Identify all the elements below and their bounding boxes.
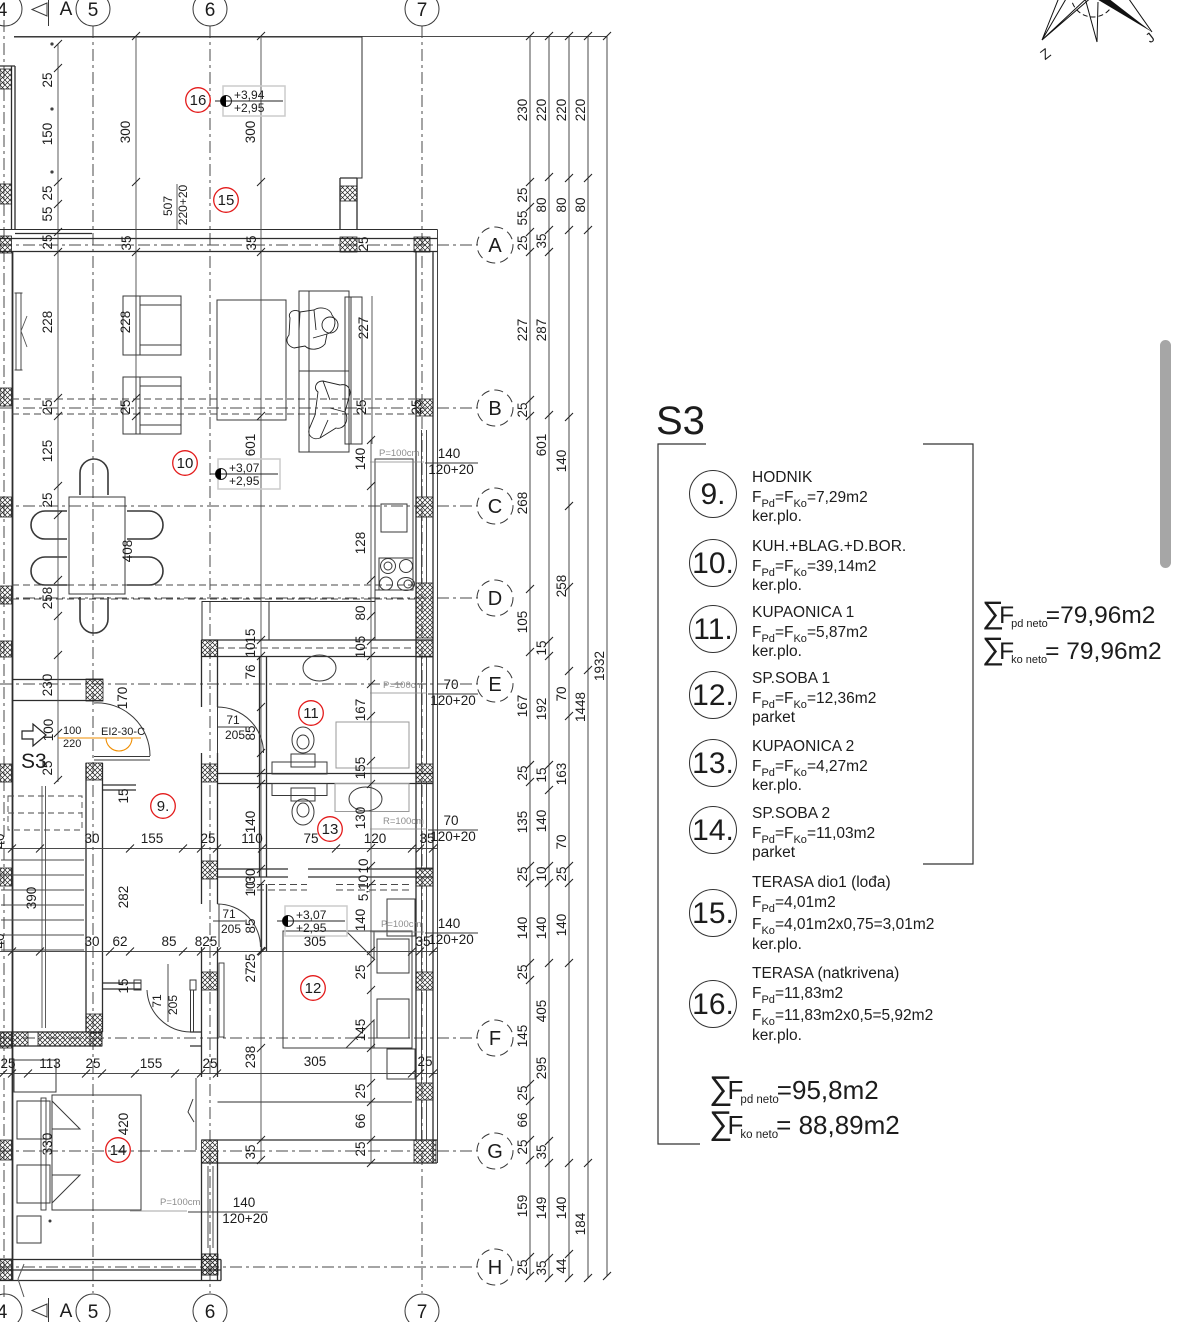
- interior rotated dim labels: [0, 72, 424, 1159]
- hatch block: [202, 640, 218, 657]
- bed room 14: [14, 1060, 141, 1243]
- hatch block: [340, 237, 357, 252]
- svg-text:1448: 1448: [573, 692, 588, 722]
- svg-text:125: 125: [40, 440, 55, 463]
- svg-text:5,10: 5,10: [356, 875, 371, 901]
- svg-text:6: 6: [205, 1302, 216, 1322]
- svg-text:13: 13: [322, 821, 339, 838]
- svg-text:25: 25: [353, 964, 368, 979]
- svg-text:140: 140: [534, 917, 549, 940]
- bubble 5 bottom: [76, 1294, 110, 1322]
- svg-text:71: 71: [150, 994, 164, 1008]
- hatch block: [416, 497, 433, 517]
- svg-text:130: 130: [353, 807, 368, 830]
- grid line E horizontal: [0, 683, 478, 685]
- svg-text:408: 408: [120, 540, 135, 563]
- hatch block: [416, 764, 433, 782]
- svg-text:S3: S3: [21, 750, 47, 773]
- svg-text:11.: 11.: [693, 613, 732, 646]
- window glazing right wall: [15, 293, 427, 1248]
- dim line x136: [135, 36, 137, 416]
- svg-text:15: 15: [116, 978, 131, 993]
- svg-text:B: B: [488, 398, 501, 420]
- hatched wall blocks: [0, 69, 436, 1280]
- svg-text:25: 25: [515, 187, 530, 202]
- svg-text:15: 15: [534, 640, 549, 655]
- bubble 6 bottom: [193, 1294, 227, 1322]
- svg-text:∑Fpd neto=95,8m2: ∑Fpd neto=95,8m2: [709, 1069, 879, 1106]
- svg-text:parket: parket: [752, 844, 796, 861]
- svg-text:P=100cm: P=100cm: [383, 680, 423, 691]
- svg-text:105: 105: [353, 636, 368, 659]
- door room11: [218, 707, 264, 753]
- corridor wall x201-217 segments: [202, 640, 218, 707]
- svg-text:1932: 1932: [592, 651, 607, 681]
- hatch block: [202, 1140, 218, 1163]
- svg-text:80: 80: [573, 197, 588, 212]
- svg-text:R=100cm: R=100cm: [383, 816, 424, 827]
- svg-text:295: 295: [534, 1057, 549, 1080]
- 507 label line: [176, 184, 178, 229]
- chain line 1: [529, 36, 531, 1276]
- svg-text:507: 507: [161, 196, 175, 216]
- glazing terrace window below G: [208, 1166, 213, 1248]
- svg-text:A: A: [60, 1301, 73, 1322]
- svg-text:163: 163: [554, 763, 569, 786]
- svg-text:128: 128: [353, 532, 368, 555]
- svg-text:25: 25: [118, 399, 133, 414]
- svg-text:227: 227: [515, 319, 530, 342]
- svg-text:220: 220: [573, 99, 588, 122]
- svg-text:238: 238: [243, 1046, 258, 1069]
- legend entry 13.: [690, 740, 737, 787]
- svg-text:220+20: 220+20: [176, 184, 190, 225]
- svg-text:140: 140: [554, 450, 569, 473]
- right outer sill line: [437, 230, 439, 1164]
- svg-text:9.: 9.: [700, 478, 725, 511]
- svg-text:H: H: [488, 1257, 502, 1279]
- left wall below A: [12, 252, 14, 1281]
- svg-text:ker.plo.: ker.plo.: [752, 643, 802, 660]
- svg-text:184: 184: [573, 1212, 588, 1235]
- svg-text:27: 27: [243, 967, 258, 982]
- svg-text:35: 35: [534, 233, 549, 248]
- svg-text:70: 70: [554, 834, 569, 849]
- svg-text:A: A: [60, 0, 73, 20]
- svg-text:25: 25: [354, 399, 369, 414]
- svg-text:205: 205: [221, 922, 241, 936]
- svg-text:∑Fko neto= 88,89m2: ∑Fko neto= 88,89m2: [709, 1104, 900, 1141]
- room12 bottom wall G: [202, 1140, 438, 1163]
- hatch block: [0, 236, 12, 253]
- svg-text:FPd=FKo=11,03m2: FPd=FKo=11,03m2: [752, 825, 875, 846]
- svg-text:FKo=4,01m2x0,75=3,01m2: FKo=4,01m2x0,75=3,01m2: [752, 916, 934, 937]
- door labels 71/205: [150, 713, 249, 1022]
- svg-text:25: 25: [85, 1056, 100, 1071]
- svg-text:4: 4: [0, 1302, 8, 1322]
- svg-text:100: 100: [63, 725, 81, 737]
- chain ticks: [526, 32, 611, 1282]
- svg-text:25: 25: [0, 1056, 15, 1071]
- hatch block: [416, 1083, 433, 1100]
- chain line 4: [587, 36, 589, 1278]
- S3 section arrow: [22, 724, 46, 746]
- svg-text:EI2-30-C: EI2-30-C: [101, 726, 145, 738]
- svg-text:230: 230: [515, 99, 530, 122]
- svg-text:227: 227: [356, 317, 371, 340]
- svg-text:258: 258: [554, 575, 569, 598]
- svg-text:140: 140: [353, 448, 368, 471]
- svg-text:FPd=FKo=4,27m2: FPd=FKo=4,27m2: [752, 758, 868, 779]
- svg-text:601: 601: [243, 434, 258, 457]
- svg-text:ker.plo.: ker.plo.: [752, 1027, 802, 1044]
- legend entry 10.: [690, 540, 737, 587]
- grid line C horizontal: [0, 505, 478, 507]
- svg-text:35: 35: [534, 1144, 549, 1159]
- svg-text:85: 85: [243, 725, 258, 740]
- svg-text:105: 105: [515, 611, 530, 634]
- svg-text:40: 40: [0, 933, 7, 948]
- svg-text:25: 25: [40, 492, 55, 507]
- hatch block: [86, 763, 103, 780]
- svg-text:4: 4: [0, 0, 8, 21]
- hatch block: [202, 972, 218, 990]
- svg-text:44: 44: [554, 1258, 569, 1274]
- kitchen counter: [375, 459, 415, 640]
- svg-text:80: 80: [353, 605, 368, 620]
- legend entry 9.: [690, 471, 737, 518]
- bubble 7 bottom: [405, 1294, 439, 1322]
- room14 top wall: [0, 1032, 202, 1046]
- svg-text:25: 25: [515, 235, 530, 250]
- svg-text:30: 30: [84, 934, 99, 949]
- hall 9 left wall: [86, 763, 103, 1032]
- svg-text:5: 5: [88, 0, 99, 21]
- armchair 1: [123, 296, 181, 355]
- svg-text:10: 10: [243, 881, 258, 896]
- svg-text:15: 15: [243, 628, 258, 643]
- wardrobe slab room14: [41, 1098, 46, 1210]
- dots on dim line: [57, 44, 59, 782]
- svg-text:25: 25: [243, 953, 258, 968]
- svg-text:14: 14: [110, 1142, 127, 1159]
- svg-text:167: 167: [515, 695, 530, 718]
- grid line 6 vertical: [209, 26, 211, 1293]
- svg-text:230: 230: [40, 674, 55, 697]
- svg-text:192: 192: [534, 698, 549, 721]
- svg-text:16: 16: [190, 92, 207, 109]
- grid line B horizontal: [0, 407, 478, 409]
- svg-text:13.: 13.: [692, 747, 734, 780]
- svg-text:405: 405: [534, 1000, 549, 1023]
- burners: [381, 559, 396, 574]
- bubble 4 top: [0, 0, 22, 26]
- hatch block: [0, 388, 12, 406]
- entry door to hall: [94, 703, 150, 760]
- wardrobe slab room12 left: [219, 963, 224, 1037]
- hatch block: [202, 1254, 218, 1275]
- coffee table: [217, 300, 286, 420]
- grid line 5 vertical: [92, 26, 94, 1293]
- svg-text:15: 15: [116, 788, 131, 803]
- svg-text:71: 71: [226, 713, 240, 727]
- svg-text:25: 25: [515, 765, 530, 780]
- svg-text:825: 825: [195, 934, 218, 949]
- svg-text:FPd=FKo=12,36m2: FPd=FKo=12,36m2: [752, 690, 876, 711]
- DIMENSION CHAINS right: [14, 36, 607, 1278]
- hatch block: [0, 69, 12, 89]
- bubble 4 bottom: [0, 1294, 22, 1322]
- svg-text:35: 35: [534, 1260, 549, 1275]
- svg-text:601: 601: [534, 434, 549, 457]
- legend entry 11.: [690, 606, 737, 653]
- grid line H horizontal: [0, 1266, 478, 1268]
- right exterior wall faces: [416, 252, 433, 1163]
- dining table: [69, 497, 125, 594]
- chain line 2: [548, 36, 550, 1278]
- couch: [299, 291, 349, 452]
- svg-text:35: 35: [244, 235, 259, 250]
- svg-text:75: 75: [303, 831, 318, 846]
- bubble 5 top: [76, 0, 110, 26]
- legend right bracket: [923, 444, 973, 864]
- svg-text:140: 140: [515, 917, 530, 940]
- svg-text:TERASA (natkrivena): TERASA (natkrivena): [752, 965, 899, 982]
- svg-text:170: 170: [115, 687, 130, 710]
- svg-text:P=100cm: P=100cm: [160, 1197, 200, 1208]
- dim line x261: [260, 36, 262, 1160]
- svg-text:140: 140: [243, 811, 258, 834]
- hatch block: [86, 679, 103, 701]
- svg-text:66: 66: [353, 1113, 368, 1128]
- svg-text:7: 7: [417, 0, 428, 21]
- svg-text:25: 25: [515, 964, 530, 979]
- svg-text:A: A: [488, 235, 502, 257]
- svg-text:25: 25: [409, 399, 424, 414]
- svg-text:228: 228: [40, 311, 55, 334]
- wall stub col top: [340, 178, 357, 230]
- svg-text:35: 35: [119, 235, 134, 250]
- svg-text:85: 85: [161, 934, 176, 949]
- hatch block: [0, 641, 12, 657]
- hatch block: [202, 861, 218, 879]
- H bottom wall: [0, 1260, 221, 1281]
- svg-text:6: 6: [205, 0, 216, 21]
- hatch block: [38, 1032, 102, 1046]
- break mark bottom-left: [18, 1264, 24, 1297]
- svg-text:140: 140: [353, 909, 368, 932]
- svg-text:120+20: 120+20: [430, 693, 475, 708]
- top connector line: [14, 36, 607, 38]
- svg-text:ker.plo.: ker.plo.: [752, 777, 802, 794]
- svg-text:71: 71: [222, 907, 236, 921]
- svg-text:5: 5: [88, 1302, 99, 1322]
- svg-text:300: 300: [243, 121, 258, 144]
- hatch block: [414, 1140, 436, 1163]
- door14 terrace leaf: [188, 1078, 196, 1150]
- svg-text:35: 35: [243, 1144, 258, 1159]
- svg-text:25: 25: [353, 1141, 368, 1156]
- svg-text:305: 305: [304, 1054, 327, 1069]
- legend entry 16.: [690, 981, 737, 1028]
- svg-text:25: 25: [515, 1139, 530, 1154]
- svg-text:25: 25: [356, 236, 371, 251]
- svg-text:120: 120: [364, 831, 387, 846]
- hatch block: [340, 186, 357, 201]
- svg-text:FPd=11,83m2: FPd=11,83m2: [752, 985, 843, 1006]
- bath top wall: [202, 640, 434, 657]
- dim row y1073: [0, 1073, 437, 1075]
- dining chairs: [31, 459, 163, 633]
- svg-text:14.: 14.: [692, 814, 734, 847]
- bubble 7 top: [405, 0, 439, 26]
- svg-text:15.: 15.: [692, 897, 734, 930]
- dashed landing box: [8, 796, 82, 830]
- chain line 3: [568, 36, 570, 1278]
- svg-text:120+20: 120+20: [222, 1211, 267, 1226]
- svg-text:11: 11: [303, 705, 319, 722]
- svg-text:KUPAONICA 2: KUPAONICA 2: [752, 738, 854, 755]
- svg-text:300: 300: [118, 121, 133, 144]
- dashed beams B and D: [12, 399, 416, 890]
- dim row y951: [0, 951, 437, 953]
- break mark left window: [21, 316, 27, 347]
- svg-text:159: 159: [515, 1195, 530, 1218]
- svg-text:140: 140: [233, 1195, 256, 1210]
- hatch block: [0, 868, 12, 886]
- svg-text:parket: parket: [752, 709, 796, 726]
- svg-text:+3,94: +3,94: [234, 88, 265, 102]
- svg-text:228: 228: [118, 311, 133, 334]
- svg-text:66: 66: [515, 1112, 530, 1127]
- leader lines for window labels: [130, 462, 427, 1211]
- svg-text:E: E: [488, 674, 501, 696]
- dim row y848: [0, 848, 437, 850]
- svg-text:205: 205: [225, 728, 245, 742]
- svg-text:258: 258: [40, 587, 55, 610]
- svg-text:25: 25: [515, 1085, 530, 1100]
- svg-text:135: 135: [515, 811, 530, 834]
- terrace outline top: [14, 37, 362, 178]
- hatch block: [0, 586, 12, 604]
- svg-text:FPd=FKo=39,14m2: FPd=FKo=39,14m2: [752, 558, 876, 579]
- bath 11 fixtures: [272, 655, 409, 774]
- legend entry 14.: [690, 807, 737, 854]
- bubble 6 top: [193, 0, 227, 26]
- svg-text:167: 167: [353, 699, 368, 722]
- svg-text:12.: 12.: [692, 679, 734, 712]
- svg-text:P=100cm: P=100cm: [379, 448, 419, 459]
- svg-text:70: 70: [443, 813, 458, 828]
- svg-text:25: 25: [40, 72, 55, 87]
- svg-text:F: F: [489, 1028, 501, 1050]
- svg-text:140: 140: [554, 1197, 569, 1220]
- window spec labels: [160, 446, 478, 1226]
- hatch block: [0, 184, 12, 204]
- svg-text:205: 205: [166, 995, 180, 1015]
- hatch block: [416, 640, 433, 657]
- svg-text:145: 145: [353, 1019, 368, 1042]
- svg-text:120+20: 120+20: [428, 932, 473, 947]
- svg-text:+3,07: +3,07: [229, 461, 260, 475]
- svg-text:55: 55: [40, 206, 55, 221]
- svg-text:∑Fpd neto=79,96m2: ∑Fpd neto=79,96m2: [982, 595, 1155, 630]
- section mark bottom: [32, 1298, 49, 1322]
- svg-text:+2,95: +2,95: [234, 101, 265, 115]
- svg-text:76: 76: [243, 664, 258, 679]
- svg-text:10: 10: [177, 455, 194, 472]
- bath divider wall 11/13: [218, 774, 434, 784]
- hatch block: [0, 1032, 12, 1048]
- svg-text:287: 287: [534, 319, 549, 342]
- svg-text:25: 25: [40, 185, 55, 200]
- GRID BUBBLES: [0, 0, 439, 1322]
- svg-text:25: 25: [515, 1259, 530, 1274]
- chain labels column 1: [515, 99, 607, 1276]
- svg-text:25: 25: [515, 866, 530, 881]
- grid line A horizontal: [0, 244, 478, 246]
- hatch block: [0, 497, 12, 517]
- hatch block: [416, 868, 433, 886]
- hatch block: [90, 1033, 102, 1046]
- svg-text:25: 25: [554, 866, 569, 881]
- svg-text:SP.SOBA 1: SP.SOBA 1: [752, 670, 830, 687]
- svg-text:ker.plo.: ker.plo.: [752, 577, 802, 594]
- dim line x371: [370, 440, 372, 1163]
- svg-text:J: J: [1142, 29, 1157, 46]
- svg-text:40: 40: [0, 833, 7, 848]
- svg-text:420: 420: [116, 1113, 131, 1136]
- svg-text:C: C: [488, 496, 502, 518]
- svg-text:220: 220: [63, 738, 81, 750]
- svg-text:HODNIK: HODNIK: [752, 469, 813, 486]
- door room12: [218, 904, 261, 947]
- svg-text:140: 140: [438, 916, 461, 931]
- bath 13 fixtures: [272, 784, 409, 826]
- svg-text:150: 150: [40, 123, 55, 146]
- svg-text:25: 25: [417, 1054, 432, 1069]
- kitchen island: [202, 602, 269, 641]
- svg-text:P=100cm: P=100cm: [381, 919, 421, 930]
- svg-text:120+20: 120+20: [430, 829, 475, 844]
- grid line F horizontal: [0, 1037, 478, 1039]
- svg-text:220: 220: [534, 99, 549, 122]
- section mark top: [32, 0, 49, 26]
- stair rail: [42, 786, 46, 1028]
- svg-text:25: 25: [353, 1083, 368, 1098]
- svg-text:∑Fko neto= 79,96m2: ∑Fko neto= 79,96m2: [982, 631, 1162, 666]
- svg-text:140: 140: [438, 446, 461, 461]
- armchair 2: [123, 377, 181, 434]
- svg-text:10: 10: [356, 858, 371, 873]
- svg-text:FPd=4,01m2: FPd=4,01m2: [752, 894, 836, 915]
- svg-text:55: 55: [515, 210, 530, 225]
- svg-text:85: 85: [243, 918, 258, 933]
- svg-text:282: 282: [116, 886, 131, 909]
- doors: [18, 703, 264, 1297]
- grid line 7 vertical: [421, 26, 423, 1293]
- svg-text:15: 15: [218, 192, 235, 209]
- hatch block: [202, 1254, 218, 1275]
- glazing left wall window: [16, 293, 21, 370]
- letter bubbles right side (dashed circles): [477, 227, 513, 1285]
- svg-text:Z: Z: [1037, 45, 1054, 63]
- grid line 4 vertical: [3, 20, 5, 1300]
- svg-text:+2,95: +2,95: [296, 921, 327, 935]
- hatch block: [416, 972, 433, 990]
- svg-text:30: 30: [84, 831, 99, 846]
- svg-text:25: 25: [515, 402, 530, 417]
